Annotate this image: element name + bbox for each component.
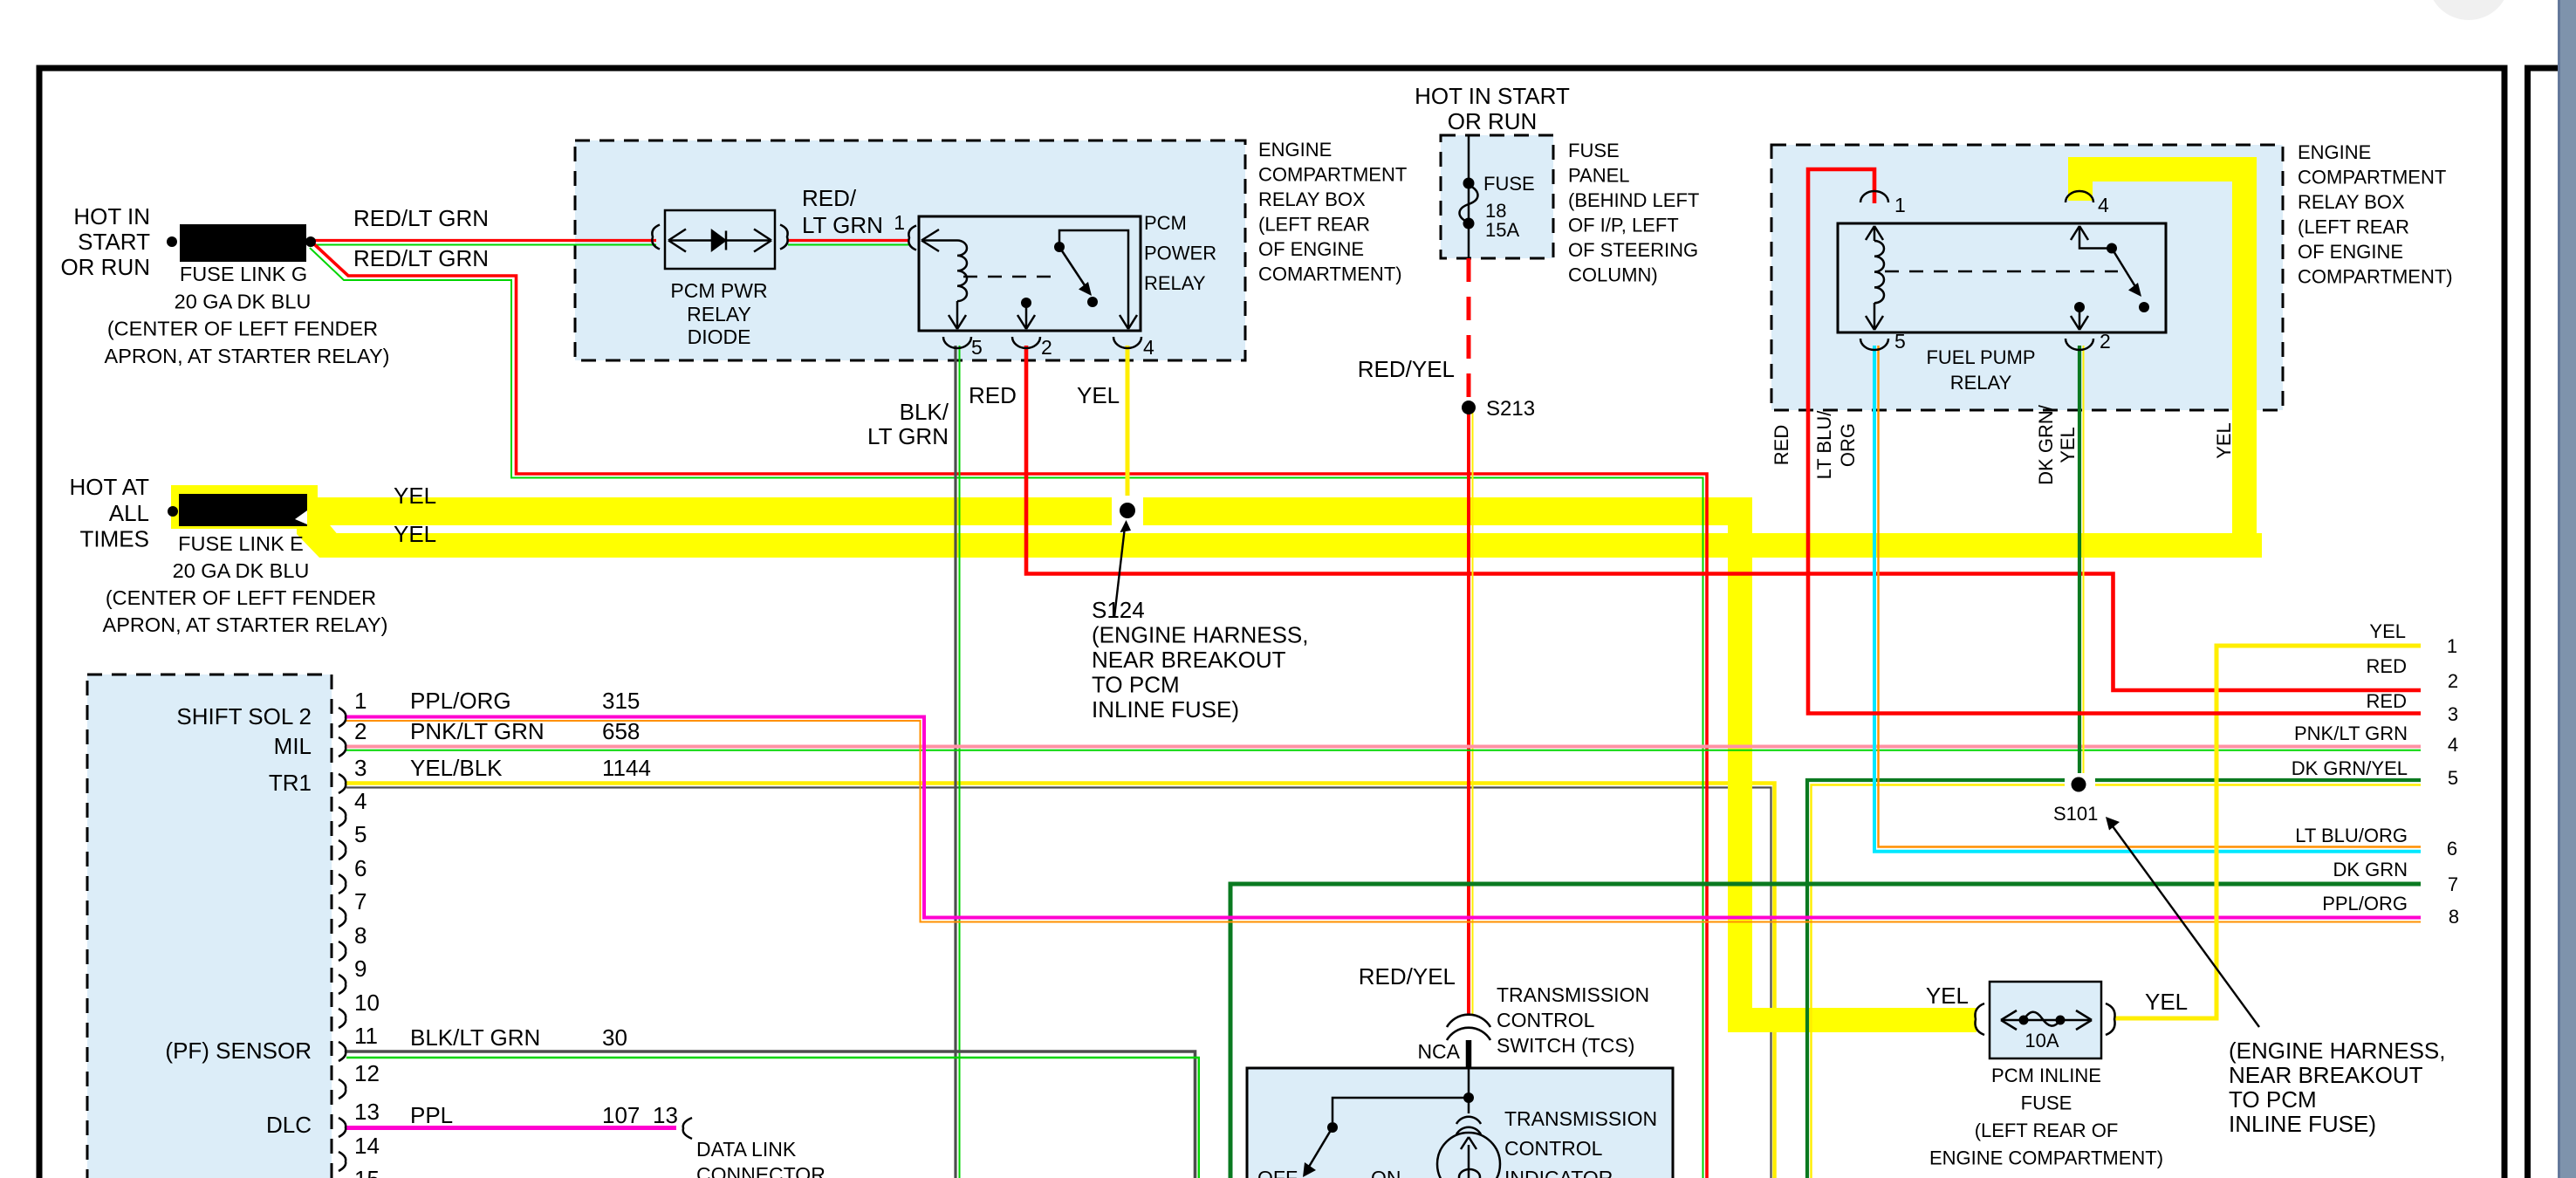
- svg-text:PCM PWR: PCM PWR: [670, 279, 767, 302]
- svg-text:(LEFT REAR: (LEFT REAR: [2298, 216, 2409, 238]
- fuse link E: [168, 494, 307, 526]
- svg-text:6: 6: [2447, 838, 2457, 860]
- wire RED right pin 3 (fuel pump relay feed): [1808, 169, 2421, 714]
- svg-text:CONTROL: CONTROL: [1497, 1009, 1595, 1031]
- svg-text:LT GRN: LT GRN: [867, 423, 949, 449]
- svg-text:YEL: YEL: [394, 521, 436, 547]
- svg-text:3: 3: [354, 755, 367, 781]
- svg-text:BLK/LT GRN: BLK/LT GRN: [410, 1024, 540, 1051]
- svg-text:DK GRN/: DK GRN/: [2035, 404, 2057, 485]
- svg-text:ORG: ORG: [1837, 423, 1859, 467]
- svg-text:PCM INLINE: PCM INLINE: [1991, 1065, 2101, 1086]
- svg-text:2: 2: [2100, 330, 2111, 353]
- svg-text:PCM: PCM: [1144, 212, 1187, 234]
- wire RED/LT GRN upper (fuse link G to diode): [312, 241, 908, 245]
- svg-text:RED/YEL: RED/YEL: [1358, 356, 1455, 382]
- svg-text:YEL: YEL: [2057, 427, 2079, 463]
- S101 gap + dot: [2065, 775, 2259, 1027]
- svg-text:8: 8: [2449, 906, 2459, 928]
- fuse panel box: [1441, 135, 1553, 258]
- engine compartment relay box 4 (fuel pump relay): [1771, 145, 2283, 410]
- svg-text:1: 1: [354, 688, 367, 714]
- svg-text:5: 5: [2448, 767, 2458, 789]
- scrollbar strip: [2558, 0, 2576, 1178]
- svg-text:NCA: NCA: [1417, 1040, 1460, 1063]
- svg-text:RELAY BOX: RELAY BOX: [2298, 191, 2405, 213]
- svg-text:PPL: PPL: [410, 1102, 453, 1128]
- svg-text:DATA LINK: DATA LINK: [696, 1138, 797, 1161]
- svg-text:7: 7: [2448, 873, 2458, 895]
- svg-text:OFF: OFF: [1257, 1167, 1298, 1178]
- svg-text:ENGINE COMPARTMENT): ENGINE COMPARTMENT): [1929, 1147, 2163, 1169]
- svg-text:12: 12: [354, 1060, 380, 1086]
- svg-text:RED/LT GRN: RED/LT GRN: [353, 205, 489, 231]
- svg-text:9: 9: [354, 955, 367, 982]
- pcm power relay: [1144, 212, 1216, 294]
- svg-text:PANEL: PANEL: [1568, 165, 1630, 187]
- fuse link E label: [103, 532, 388, 636]
- wire PNK/LT GRN 658 MIL: [346, 747, 2421, 750]
- svg-text:4: 4: [1143, 336, 1154, 359]
- svg-text:(ENGINE HARNESS,: (ENGINE HARNESS,: [1092, 622, 1309, 648]
- svg-text:TO PCM: TO PCM: [2229, 1086, 2317, 1113]
- svg-text:APRON, AT STARTER RELAY): APRON, AT STARTER RELAY): [105, 345, 390, 367]
- svg-text:15: 15: [354, 1166, 380, 1178]
- svg-text:OF ENGINE: OF ENGINE: [2298, 241, 2403, 263]
- svg-text:2: 2: [2448, 670, 2458, 692]
- wire: top bus to fuel pump relay pin 4: [2068, 157, 2257, 181]
- svg-text:30: 30: [602, 1024, 627, 1051]
- svg-text:OR RUN: OR RUN: [1448, 108, 1538, 134]
- svg-text:RED/: RED/: [802, 185, 857, 211]
- wire: lower yellow bus: [330, 533, 2262, 558]
- TCS connector arcs: [1447, 1015, 1490, 1027]
- svg-text:OR RUN: OR RUN: [60, 254, 150, 280]
- svg-text:YEL: YEL: [2145, 989, 2188, 1015]
- wire: bottom bus to PCM inline fuse: [1728, 1008, 1977, 1032]
- svg-text:3: 3: [2448, 703, 2458, 725]
- svg-text:CONTROL: CONTROL: [1504, 1137, 1603, 1160]
- diagonal join: [297, 515, 349, 558]
- svg-text:1: 1: [2447, 635, 2457, 657]
- svg-text:7: 7: [354, 888, 367, 914]
- svg-text:INLINE FUSE): INLINE FUSE): [2229, 1111, 2376, 1137]
- svg-text:SHIFT SOL 2: SHIFT SOL 2: [176, 703, 312, 729]
- second page border: [2528, 68, 2560, 1178]
- wire: pin4 stub: [2068, 157, 2093, 201]
- svg-text:10A: 10A: [2024, 1030, 2059, 1051]
- rotated wire labels: [1771, 404, 2235, 485]
- wire: upper yellow bus: [316, 497, 1752, 525]
- svg-text:LT BLU/: LT BLU/: [1813, 410, 1835, 480]
- svg-text:DIODE: DIODE: [688, 325, 751, 348]
- box4 label: [2298, 141, 2453, 288]
- svg-text:13: 13: [653, 1102, 678, 1128]
- svg-text:(CENTER OF LEFT FENDER: (CENTER OF LEFT FENDER: [106, 586, 376, 609]
- wire YEL right pin 1 (from PCM inline fuse): [2115, 646, 2421, 1018]
- svg-text:5: 5: [1894, 330, 1906, 353]
- svg-text:14: 14: [354, 1133, 380, 1159]
- svg-text:2: 2: [354, 718, 367, 744]
- svg-text:RELAY: RELAY: [687, 303, 751, 325]
- svg-text:INDICATOR: INDICATOR: [1504, 1167, 1613, 1178]
- svg-text:RED/YEL: RED/YEL: [1359, 963, 1456, 990]
- wire RED from PCM power relay pin 2: [1026, 346, 2421, 690]
- svg-text:CONNECTOR: CONNECTOR: [696, 1163, 826, 1178]
- svg-text:ON: ON: [1371, 1167, 1401, 1178]
- svg-text:PNK/LT GRN: PNK/LT GRN: [410, 718, 545, 744]
- svg-text:20 GA DK BLU: 20 GA DK BLU: [173, 559, 310, 582]
- svg-text:YEL: YEL: [2213, 422, 2235, 459]
- wire DK GRN (right pin 7): [1230, 884, 2421, 1178]
- svg-text:TIMES: TIMES: [80, 526, 149, 552]
- svg-text:FUSE: FUSE: [1483, 173, 1535, 195]
- ON branch to indicator: [1468, 1098, 1470, 1113]
- svg-text:START: START: [78, 229, 150, 255]
- svg-text:(CENTER OF LEFT FENDER: (CENTER OF LEFT FENDER: [107, 318, 378, 340]
- svg-text:S124: S124: [1092, 597, 1145, 623]
- wire PPL 107 DLC: [346, 1126, 676, 1130]
- svg-text:1: 1: [894, 211, 905, 234]
- svg-text:15A: 15A: [1485, 219, 1519, 241]
- svg-text:11: 11: [354, 1023, 378, 1049]
- svg-text:OF I/P, LEFT: OF I/P, LEFT: [1568, 215, 1679, 236]
- svg-text:4: 4: [354, 788, 367, 814]
- wire YEL from PCM power relay pin 4 to S124: [1126, 346, 1130, 496]
- svg-text:COMPARTMENT: COMPARTMENT: [2298, 167, 2446, 188]
- svg-text:DLC: DLC: [266, 1112, 312, 1138]
- TCS box: [1247, 1068, 1673, 1178]
- svg-text:4: 4: [2448, 734, 2458, 756]
- svg-text:(PF) SENSOR: (PF) SENSOR: [165, 1038, 312, 1064]
- svg-text:OF ENGINE: OF ENGINE: [1258, 238, 1364, 260]
- svg-text:YEL: YEL: [2369, 620, 2406, 642]
- svg-text:TRANSMISSION: TRANSMISSION: [1497, 983, 1649, 1006]
- svg-text:107: 107: [602, 1102, 640, 1128]
- svg-text:2: 2: [1041, 336, 1052, 359]
- node S124: [1120, 503, 1135, 518]
- svg-text:SWITCH (TCS): SWITCH (TCS): [1497, 1034, 1634, 1057]
- wire: left vertical bus: [1728, 497, 1752, 1032]
- svg-text:YEL: YEL: [394, 483, 436, 509]
- svg-text:PPL/ORG: PPL/ORG: [2322, 893, 2408, 914]
- svg-text:8: 8: [354, 922, 367, 949]
- svg-text:LT GRN: LT GRN: [802, 212, 883, 238]
- svg-text:COMPARTMENT): COMPARTMENT): [2298, 266, 2453, 288]
- svg-text:POWER: POWER: [1144, 243, 1216, 264]
- svg-text:1: 1: [1894, 194, 1906, 216]
- svg-text:TR1: TR1: [269, 770, 312, 796]
- wire LT BLU/ORG (fuel pump relay pin 5 to right pin 6): [1874, 346, 2421, 852]
- PCM connector box (left): [87, 675, 332, 1178]
- svg-text:NEAR BREAKOUT: NEAR BREAKOUT: [2229, 1062, 2423, 1088]
- svg-text:RED/LT GRN: RED/LT GRN: [353, 245, 489, 271]
- svg-text:MIL: MIL: [274, 733, 312, 759]
- svg-text:FUSE: FUSE: [2021, 1092, 2072, 1114]
- svg-text:RELAY: RELAY: [1950, 372, 2012, 394]
- svg-text:(BEHIND LEFT: (BEHIND LEFT: [1568, 189, 1699, 211]
- svg-text:LT BLU/ORG: LT BLU/ORG: [2295, 825, 2408, 846]
- fuse link G: [167, 224, 316, 262]
- wire BLK/LT GRN from PCM power relay pin 5: [956, 346, 960, 1178]
- svg-text:FUEL PUMP: FUEL PUMP: [1926, 346, 2035, 368]
- svg-text:DK GRN: DK GRN: [2333, 859, 2408, 880]
- svg-text:YEL: YEL: [1926, 983, 1969, 1009]
- svg-text:10: 10: [354, 990, 380, 1016]
- svg-text:INLINE FUSE): INLINE FUSE): [1092, 696, 1239, 723]
- svg-text:RED: RED: [2367, 690, 2407, 712]
- svg-text:6: 6: [354, 855, 367, 881]
- NCA bold line: [1466, 1040, 1472, 1068]
- indicator lamp: [1437, 1133, 1500, 1178]
- fuel pump relay: [1894, 194, 2111, 353]
- svg-text:PPL/ORG: PPL/ORG: [410, 688, 511, 714]
- svg-text:(LEFT REAR OF: (LEFT REAR OF: [1975, 1120, 2119, 1141]
- svg-text:5: 5: [971, 336, 983, 359]
- node S101: [2072, 777, 2086, 792]
- box1 label: [1258, 139, 1407, 285]
- svg-text:HOT IN: HOT IN: [73, 203, 150, 229]
- svg-text:S213: S213: [1486, 397, 1535, 421]
- svg-text:4: 4: [2098, 194, 2109, 216]
- svg-text:COMARTMENT): COMARTMENT): [1258, 264, 1402, 285]
- svg-text:(LEFT REAR: (LEFT REAR: [1258, 214, 1370, 236]
- svg-text:OF STEERING: OF STEERING: [1568, 239, 1698, 261]
- OFF branch: [1333, 1098, 1469, 1122]
- wire RED/LT GRN lower (fuse link G down-right, to bottom): [310, 242, 1707, 1178]
- svg-text:FUSE LINK G: FUSE LINK G: [180, 263, 307, 285]
- node S213: [1462, 401, 1476, 414]
- svg-text:NEAR BREAKOUT: NEAR BREAKOUT: [1092, 647, 1286, 673]
- svg-text:20 GA DK BLU: 20 GA DK BLU: [175, 291, 312, 313]
- top-right circle button: [2428, 0, 2510, 20]
- svg-text:13: 13: [354, 1099, 380, 1125]
- wire: right vertical bus: [2232, 157, 2257, 558]
- svg-text:RED: RED: [2367, 655, 2407, 677]
- svg-text:RELAY: RELAY: [1144, 272, 1206, 294]
- svg-text:FUSE: FUSE: [1568, 140, 1620, 161]
- wire DK GRN/YEL (S101, fuel pump relay pin 2, right pin 5): [1807, 346, 2421, 1178]
- wire BLK/LT GRN 30 PF sensor: [346, 1051, 1199, 1178]
- svg-text:YEL/BLK: YEL/BLK: [410, 755, 503, 781]
- svg-text:PNK/LT GRN: PNK/LT GRN: [2294, 723, 2408, 744]
- fuse link G label: [105, 263, 390, 367]
- svg-text:(ENGINE HARNESS,: (ENGINE HARNESS,: [2229, 1038, 2446, 1064]
- svg-text:RED: RED: [1771, 425, 1792, 465]
- svg-text:658: 658: [602, 718, 640, 744]
- svg-text:S101: S101: [2053, 803, 2098, 825]
- svg-text:FUSE LINK E: FUSE LINK E: [178, 532, 304, 555]
- S124 gap + dot: [1112, 497, 1143, 617]
- svg-text:HOT AT: HOT AT: [70, 474, 150, 500]
- svg-text:TO PCM: TO PCM: [1092, 672, 1180, 698]
- wire RED/YEL dashed from fuse 18 to S213: [1467, 258, 1471, 403]
- PCM inline fuse box: [1990, 982, 2101, 1058]
- DLC cups: [683, 1118, 698, 1178]
- wire YEL/BLK 1144 TR1: [346, 784, 1775, 1178]
- svg-text:ENGINE: ENGINE: [2298, 141, 2371, 163]
- right pin labels: [2292, 620, 2459, 928]
- svg-text:BLK/: BLK/: [900, 399, 949, 425]
- svg-text:RED: RED: [969, 382, 1017, 408]
- svg-text:ALL: ALL: [109, 500, 149, 526]
- PCM inline fuse: [1929, 1030, 2163, 1169]
- svg-text:315: 315: [602, 688, 640, 714]
- engine compartment relay box 1 (PCM power relay): [575, 140, 1245, 360]
- wire RED/YEL from S213 to TCS: [1469, 403, 1473, 1015]
- fuse panel label: [1568, 140, 1699, 286]
- svg-text:COMPARTMENT: COMPARTMENT: [1258, 164, 1407, 186]
- fuse link E yellow block: [171, 485, 318, 529]
- svg-text:TRANSMISSION: TRANSMISSION: [1504, 1107, 1657, 1130]
- wire PPL/ORG 315 (SHIFT SOL 2 to right pin 8): [346, 717, 2421, 922]
- svg-text:1144: 1144: [602, 755, 651, 781]
- svg-text:5: 5: [354, 821, 367, 847]
- svg-text:ENGINE: ENGINE: [1258, 139, 1332, 161]
- svg-text:RELAY BOX: RELAY BOX: [1258, 188, 1366, 210]
- diode label: [670, 279, 767, 348]
- svg-text:DK GRN/YEL: DK GRN/YEL: [2292, 757, 2408, 779]
- svg-text:COLUMN): COLUMN): [1568, 264, 1658, 286]
- svg-text:YEL: YEL: [1077, 382, 1120, 408]
- svg-text:APRON, AT STARTER RELAY): APRON, AT STARTER RELAY): [103, 613, 388, 636]
- svg-text:HOT IN START: HOT IN START: [1415, 83, 1570, 109]
